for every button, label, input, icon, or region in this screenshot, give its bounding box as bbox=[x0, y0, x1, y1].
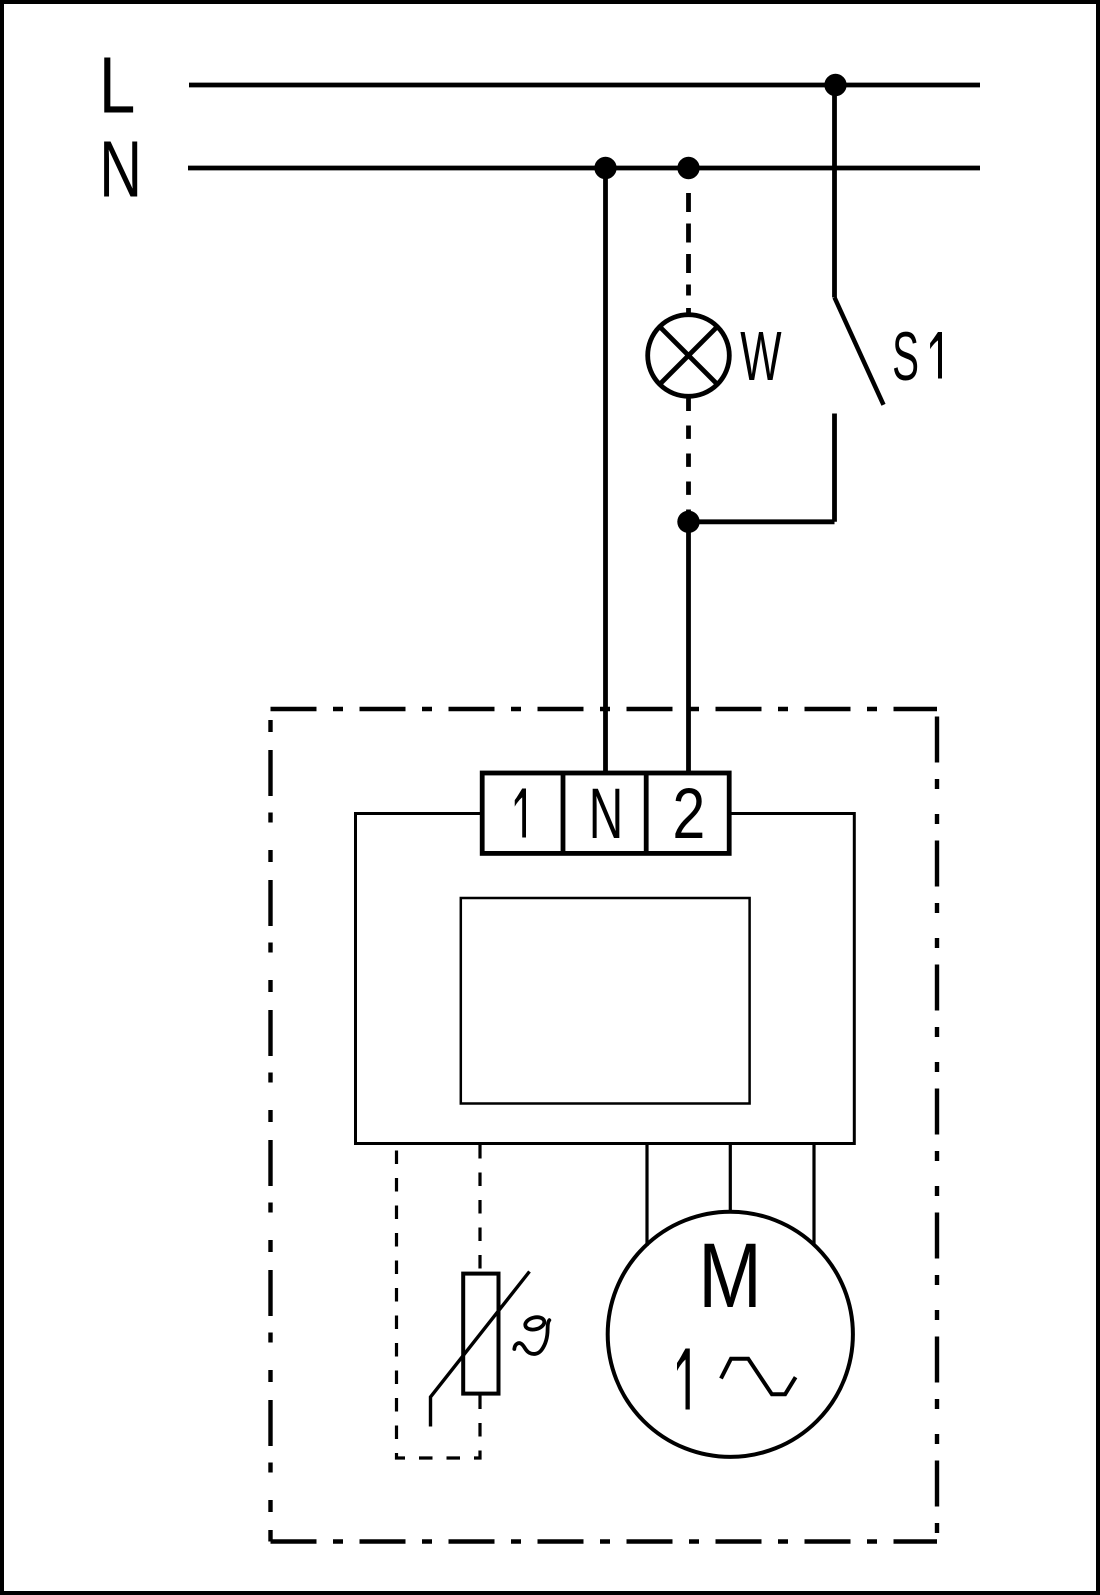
svg-text:2: 2 bbox=[672, 774, 705, 853]
svg-text:L: L bbox=[99, 41, 135, 129]
svg-text:S: S bbox=[892, 318, 919, 395]
svg-text:N: N bbox=[99, 124, 142, 214]
svg-text:N: N bbox=[589, 773, 624, 853]
svg-text:W: W bbox=[740, 318, 781, 396]
svg-text:M: M bbox=[698, 1224, 762, 1326]
